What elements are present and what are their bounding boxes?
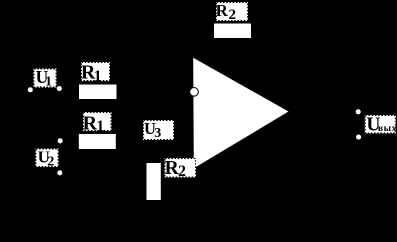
- node: output bottom terminal: [356, 135, 361, 140]
- label R2 (feedback): [216, 1, 248, 23]
- resistor R2 (vertical, bottom) body: [147, 163, 161, 200]
- resistor R1 (middle) body: [79, 134, 116, 149]
- label R2 (bottom, vertical resistor): [165, 158, 197, 180]
- svg-text:вых: вых: [378, 124, 397, 134]
- svg-text:1: 1: [94, 68, 102, 85]
- node: U2 source top terminal: [58, 138, 63, 143]
- op-amp U triangle: [193, 58, 288, 169]
- node: U1 source left terminal: [28, 87, 33, 92]
- op-amp inverting input bubble: [190, 88, 199, 97]
- svg-text:3: 3: [154, 126, 161, 141]
- svg-text:R: R: [216, 1, 229, 20]
- svg-text:1: 1: [96, 118, 104, 135]
- svg-text:2: 2: [178, 163, 186, 180]
- resistor R2 (feedback, top) body: [214, 24, 251, 39]
- node: output top terminal: [356, 109, 361, 114]
- label R1 (top): [81, 61, 110, 85]
- svg-text:2: 2: [229, 7, 237, 23]
- resistor R1 (top) body: [79, 85, 117, 100]
- label R1 (middle): [83, 112, 112, 135]
- svg-text:1: 1: [45, 75, 52, 90]
- svg-text:2: 2: [47, 155, 54, 170]
- label U3 (node voltage): [143, 119, 174, 141]
- node: U1 source right terminal: [57, 86, 62, 91]
- label U1 (input source 1): [34, 67, 57, 89]
- node: U2 source bottom terminal: [57, 170, 62, 175]
- label U_out (output voltage): [365, 114, 397, 135]
- label U2 (input source 2): [36, 148, 59, 170]
